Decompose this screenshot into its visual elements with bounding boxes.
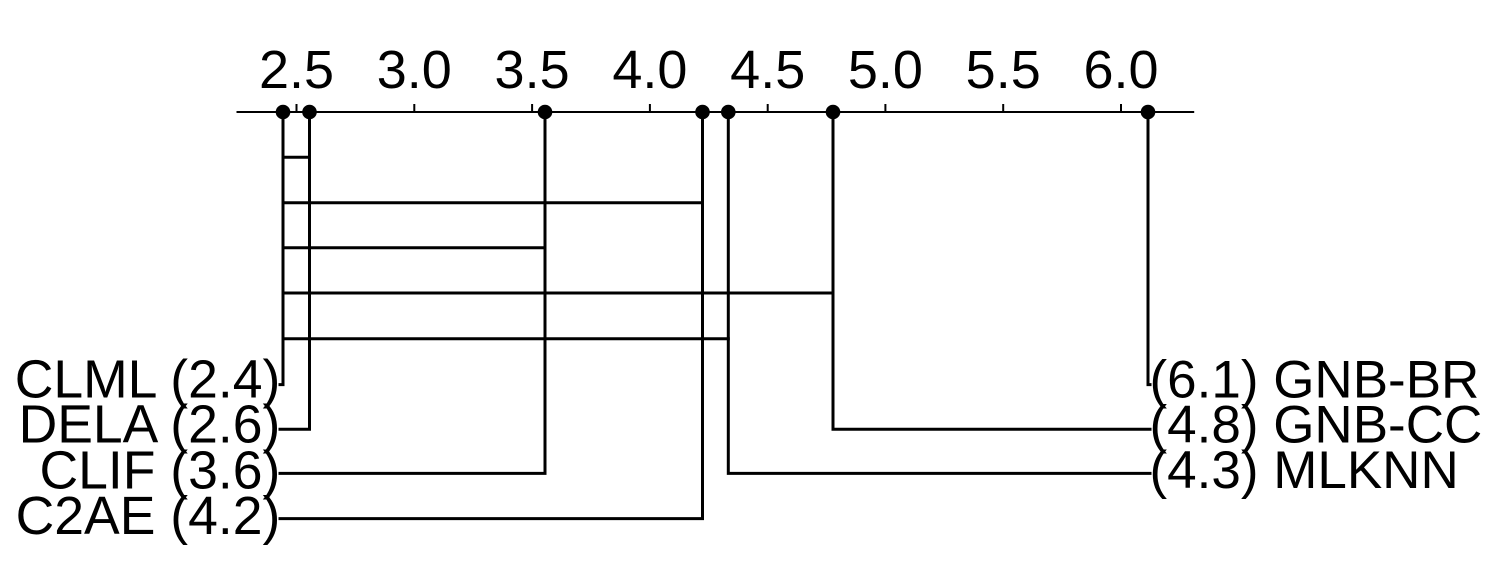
connector DELA <box>279 112 310 429</box>
dot CLML 2.4 <box>276 105 291 120</box>
tick 3.0 <box>413 104 415 112</box>
svg-text:4.5: 4.5 <box>730 40 805 100</box>
connector GNB-CC <box>833 112 1152 429</box>
tick 5.0 <box>884 104 886 112</box>
svg-text:3.5: 3.5 <box>495 40 570 100</box>
svg-text:C2AE (4.2): C2AE (4.2) <box>16 487 281 546</box>
connector MLKNN <box>728 112 1151 473</box>
dot GNB-BR 6.1 <box>1141 105 1156 120</box>
dot CLIF 3.6 <box>538 105 553 120</box>
crossbar CLML-C2AE <box>282 201 705 204</box>
crossbar CLML-CLIF <box>282 246 547 249</box>
crossbar CLML-GNBCC <box>282 292 835 295</box>
svg-text:6.0: 6.0 <box>1083 40 1158 100</box>
svg-text:3.0: 3.0 <box>377 40 452 100</box>
tick 2.5 <box>296 104 298 112</box>
dot C2AE 4.2 <box>695 105 710 120</box>
svg-text:5.0: 5.0 <box>848 40 923 100</box>
tick 6.0 <box>1120 104 1122 112</box>
tick 4.0 <box>649 104 651 112</box>
dot GNB-CC 4.8 <box>826 105 841 120</box>
crossbar CLML-MLKNN <box>282 337 730 340</box>
connector C2AE <box>279 112 703 519</box>
connector CLIF <box>279 112 546 473</box>
dot MLKNN 4.3 <box>721 105 736 120</box>
svg-text:5.5: 5.5 <box>966 40 1041 100</box>
crossbar CLML-DELA <box>282 156 312 159</box>
svg-text:(4.3) MLKNN: (4.3) MLKNN <box>1150 441 1459 500</box>
svg-text:4.0: 4.0 <box>612 40 687 100</box>
dot DELA 2.6 <box>302 105 317 120</box>
tick 4.5 <box>767 104 769 112</box>
axis line <box>237 111 1195 113</box>
connector GNB-BR <box>1148 112 1152 385</box>
svg-text:2.5: 2.5 <box>259 40 334 100</box>
tick 3.5 <box>531 104 533 112</box>
tick 5.5 <box>1002 104 1004 112</box>
connector CLML <box>279 112 284 385</box>
